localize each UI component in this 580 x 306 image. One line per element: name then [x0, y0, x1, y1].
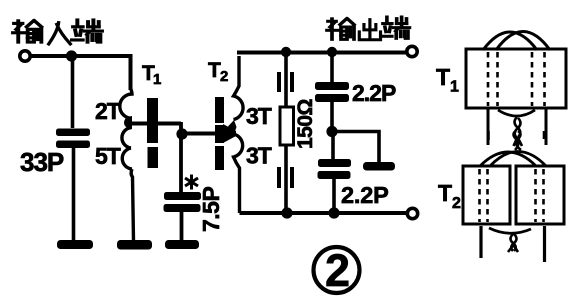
label 输入端 (input terminal text)	[13, 20, 102, 44]
svg-text:150Ω: 150Ω	[294, 99, 317, 149]
T2 winding end leads	[481, 226, 545, 262]
wire C2 to ground	[180, 212, 184, 241]
T2 bottom twisted pair	[508, 234, 518, 252]
asterisk mark	[185, 175, 198, 190]
wire tap down to C2	[179, 122, 183, 192]
capacitor 2.2P (bottom)	[318, 159, 352, 179]
T1 winding tap blob	[124, 116, 132, 129]
T1 core bar (upper)	[147, 98, 158, 143]
capacitor 33P	[56, 129, 90, 149]
feedthrough core bars upper	[277, 72, 281, 92]
wire bottom rail	[240, 211, 407, 215]
resistor R1	[280, 107, 294, 145]
wire input top	[31, 54, 131, 58]
svg-text:2.2P: 2.2P	[352, 80, 396, 106]
T1 winding end leads	[488, 108, 546, 145]
label 输出端 (output terminal text)	[327, 17, 409, 40]
transformer T1 winding (2T upper, 5T lower)	[120, 88, 134, 241]
node mid junction	[326, 126, 337, 137]
output terminal (top)	[407, 46, 417, 56]
T2 tap wedge	[223, 124, 236, 143]
wire R1 branch	[284, 52, 288, 213]
wire C3 to mid node	[330, 102, 334, 132]
T2 winding diagram core block left	[463, 166, 510, 224]
svg-text:1: 1	[450, 79, 459, 96]
T2 top twisted pair	[489, 131, 545, 150]
T1 winding diagram core block	[466, 49, 566, 108]
出	[359, 20, 380, 40]
node tap junction	[176, 128, 187, 139]
figure number 2 (circled)	[314, 247, 360, 293]
svg-text:2: 2	[220, 68, 228, 85]
wire output top	[237, 51, 406, 55]
wire top corner into T1	[129, 54, 133, 90]
svg-text:T: T	[436, 64, 450, 90]
T1 winding top loops	[483, 32, 550, 51]
svg-text:7.5P: 7.5P	[198, 187, 224, 232]
capacitor 2.2P (top)	[315, 82, 349, 102]
node R1 top junction	[281, 47, 291, 57]
输	[327, 19, 354, 40]
T1 winding bottom loop to twisted pair	[498, 110, 535, 116]
端	[382, 17, 409, 38]
svg-text:3T: 3T	[246, 103, 272, 129]
svg-text:2: 2	[325, 245, 350, 296]
wire junction to T2	[182, 132, 228, 136]
端	[72, 20, 102, 42]
ground (7.5P)	[165, 240, 199, 249]
入	[49, 23, 71, 44]
node rail R1 junction	[281, 207, 292, 218]
ground (33P)	[57, 240, 93, 249]
svg-text:2.2P: 2.2P	[341, 182, 389, 208]
svg-text:3T: 3T	[246, 143, 272, 169]
feedthrough core bars lower	[277, 167, 281, 188]
T2 core bar (lower)	[215, 146, 224, 170]
wire C3 branch	[330, 52, 334, 82]
transformer T2 winding (3T upper, 3T lower)	[234, 56, 244, 213]
output terminal (bottom)	[407, 208, 417, 218]
T2 core bar (upper)	[215, 97, 224, 123]
svg-text:5T: 5T	[95, 143, 121, 169]
输	[13, 21, 41, 42]
T2 winding diagram core block right	[516, 166, 564, 224]
node C3 top junction	[327, 47, 337, 57]
wire C1 to ground	[72, 148, 76, 241]
T2 core bar (middle)	[215, 125, 224, 143]
T2 winding bottom loop to twisted pair	[489, 228, 531, 233]
wire T1 tap	[131, 122, 181, 126]
T1 winding wires through holes (dashed)	[488, 52, 545, 106]
wire C4 to rail	[332, 179, 336, 213]
T2 winding tap diamond	[228, 120, 237, 134]
wire junction to C1	[71, 56, 75, 128]
node rail C4 junction	[328, 207, 339, 218]
T1 twisted pair	[514, 117, 523, 146]
capacitor 7.5P	[164, 192, 202, 212]
ground (T1 winding)	[117, 240, 152, 250]
input terminal	[20, 51, 30, 61]
node input junction	[66, 50, 77, 61]
svg-text:2T: 2T	[95, 98, 121, 124]
svg-text:2: 2	[452, 195, 461, 212]
ground (mid)	[363, 162, 395, 171]
wire mid node to ground	[332, 132, 379, 164]
svg-text:T: T	[438, 180, 452, 206]
wire mid node to C4	[331, 132, 335, 161]
svg-text:1: 1	[153, 71, 161, 88]
T2 winding wires through holes (dashed)	[480, 169, 544, 222]
svg-text:33P: 33P	[20, 147, 64, 177]
T1 core bar (lower)	[148, 147, 159, 168]
T2 winding top loops	[480, 152, 546, 167]
